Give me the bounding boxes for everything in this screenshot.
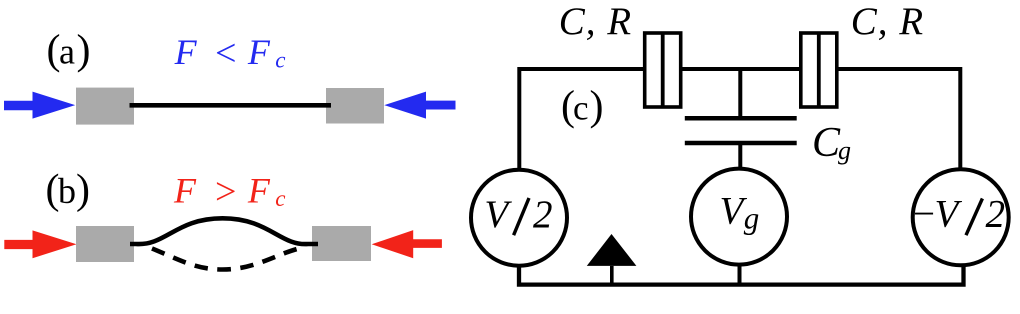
- svg-text:F>Fc: F>Fc: [173, 170, 285, 213]
- tunnel junction J1: [645, 33, 681, 107]
- left force arrow (b): [4, 230, 76, 258]
- tunnel junction J2: [801, 33, 837, 107]
- buckled beam dashed: [152, 248, 300, 269]
- wire gate return: [738, 265, 742, 285]
- left clamp block (b): [76, 226, 134, 262]
- voltage source -V/2: [911, 169, 1009, 265]
- svg-text:V2: V2: [484, 193, 552, 236]
- svg-text:(b): (b): [46, 167, 91, 213]
- svg-text:(c): (c): [561, 84, 604, 130]
- beam (a): [130, 103, 332, 108]
- svg-text:Cg: Cg: [812, 120, 851, 166]
- svg-text:−V2: −V2: [911, 193, 1006, 236]
- wire right branch: [836, 69, 960, 168]
- right force arrow (b): [372, 230, 442, 258]
- right force arrow (a): [384, 92, 455, 119]
- svg-text:(a): (a): [47, 28, 91, 74]
- right clamp block (b): [312, 226, 371, 261]
- buckled beam solid: [130, 218, 318, 244]
- wire left branch: [519, 69, 645, 168]
- svg-text:C, R: C, R: [851, 0, 924, 43]
- svg-text:C, R: C, R: [559, 0, 632, 43]
- right clamp block (a): [326, 88, 384, 124]
- voltage source Vg: [691, 169, 787, 265]
- wire bottom bus: [519, 266, 964, 285]
- voltage source V/2: [471, 170, 567, 266]
- left clamp block (a): [76, 88, 134, 125]
- left force arrow (a): [4, 92, 75, 119]
- up arrow marker (mechanical displacement): [587, 234, 637, 285]
- svg-text:Vg: Vg: [720, 190, 760, 236]
- wire island between junctions: [681, 67, 800, 71]
- svg-text:F<Fc: F<Fc: [174, 32, 286, 75]
- capacitor Cg: [685, 118, 797, 143]
- wire island to gate capacitor: [738, 69, 742, 118]
- wire gate: [738, 143, 742, 168]
